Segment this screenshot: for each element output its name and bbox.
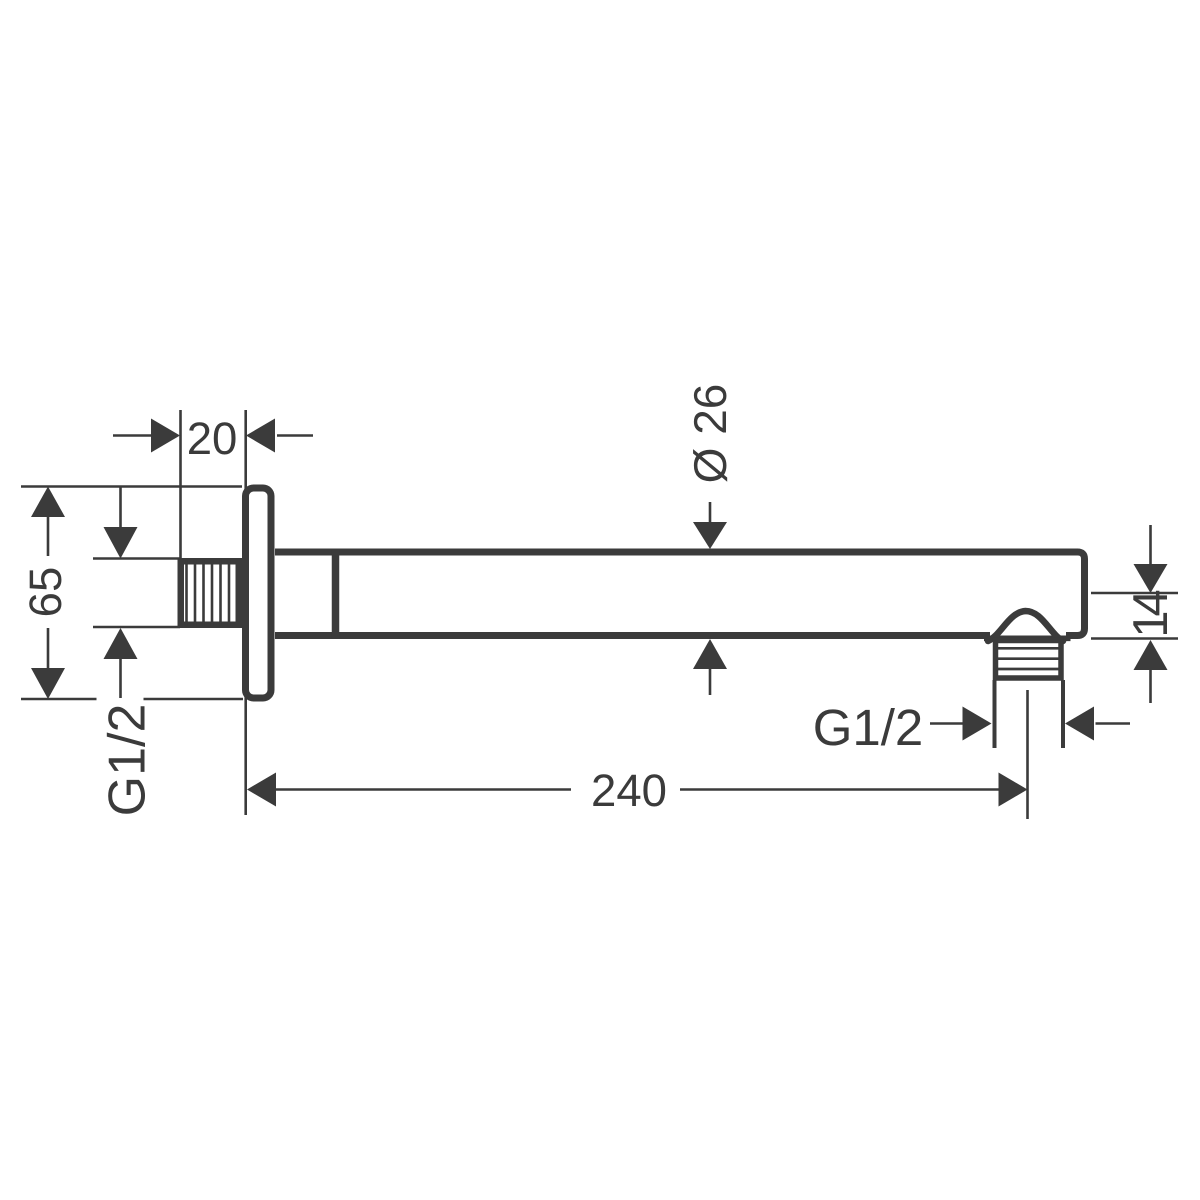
outlet threaded fitting G1/2: [996, 641, 1062, 679]
svg-text:G1/2: G1/2: [99, 704, 157, 817]
outlet thread hatch lines: [996, 648, 1061, 669]
svg-text:20: 20: [187, 413, 238, 464]
joint line on arm near flange: [332, 550, 340, 639]
svg-text:Ø 26: Ø 26: [684, 384, 736, 484]
outlet centerline: [1026, 690, 1029, 819]
thread bottom extension line: [93, 626, 180, 629]
svg-text:240: 240: [591, 765, 667, 816]
dimension Ø26: lower arrow to arm bottom: [693, 639, 727, 669]
dimension 20: extension line right (also 240 left extension): [244, 410, 247, 815]
dimension G1/2 (outlet): left leader and arrow: [930, 722, 963, 725]
dimension Ø26: upper arrow to arm top: [709, 502, 712, 522]
dimension 20: left tail and arrow: [113, 434, 152, 437]
dimension 240: dimension line with text gap: [247, 773, 276, 807]
outlet boss curve (hat) on underside of arm: [988, 611, 1063, 641]
dimension 20: extension line left: [179, 410, 182, 558]
dimension 14: lower arrow: [1134, 640, 1168, 670]
arm bottom edge (left of outlet boss): [275, 632, 990, 639]
dimension 14: lower extension line: [1091, 637, 1178, 640]
wall flange (escutcheon, side view): [246, 488, 272, 698]
svg-text:G1/2: G1/2: [813, 699, 924, 756]
wall-side threaded nipple G1/2: [181, 561, 239, 625]
dimension 14: upper extension line: [1091, 592, 1178, 595]
thread extent dimension (left, G1/2): upper arrow: [119, 487, 122, 527]
thread extent dimension: lower arrow: [104, 628, 138, 659]
outlet pipe left side: [993, 680, 997, 748]
thread top extension line: [93, 557, 180, 560]
dimension 14: upper arrow: [1149, 525, 1152, 564]
outlet pipe right side: [1061, 680, 1065, 748]
svg-text:65: 65: [20, 567, 71, 618]
nipple thread hatch lines: [187, 560, 230, 626]
outlet collar brim line: [984, 635, 1071, 641]
dimension 65: bottom extension line (gap for G1/2 text): [21, 698, 97, 701]
dimension 65: top extension line: [21, 485, 242, 488]
shower arm tube (horizontal): [275, 550, 1086, 638]
svg-text:14: 14: [1124, 591, 1178, 638]
dimension 20: right arrow and tail: [246, 419, 275, 453]
dimension G1/2 (outlet): right arrow and tail: [1065, 707, 1094, 741]
dimension 65: dimension line with outward arrowheads: [31, 487, 65, 518]
